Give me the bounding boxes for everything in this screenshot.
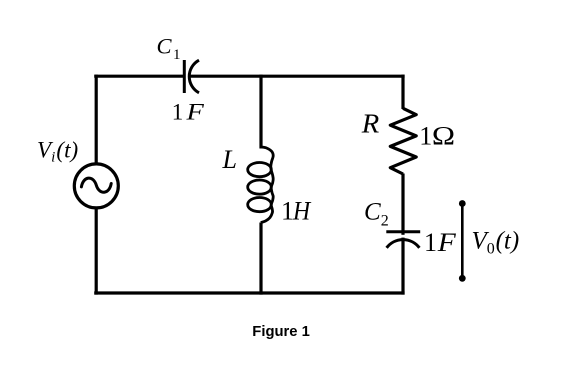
- wire: middle vertical, lower (inductor to bottom wire): [259, 223, 262, 295]
- wire: middle vertical, upper (top wire to inductor): [259, 75, 262, 149]
- wire: bottom horizontal: [94, 291, 404, 294]
- svg-text:Ω: Ω: [432, 120, 455, 150]
- svg-text:F: F: [437, 228, 457, 257]
- voltage source Vi (circle with sine): [74, 164, 118, 208]
- capacitor C2 (straight plate + curved plate): [386, 232, 420, 248]
- wire: right vertical, lower (C2 to bottom wire): [401, 238, 404, 295]
- label Vi(t): [37, 137, 78, 165]
- value 1 ohm: [419, 120, 455, 150]
- label R: [361, 108, 380, 139]
- label C1: [157, 34, 181, 64]
- wire: top horizontal, right segment: [189, 75, 404, 78]
- svg-text:R: R: [361, 108, 380, 139]
- label L: [222, 145, 237, 174]
- wire: left vertical, lower (source to bottom wire): [95, 208, 98, 295]
- wire: top horizontal, left segment: [94, 75, 183, 78]
- svg-text:C2: C2: [364, 199, 389, 230]
- resistor R (zigzag): [390, 108, 416, 174]
- svg-text:1: 1: [172, 99, 184, 124]
- svg-text:V0(t): V0(t): [472, 227, 520, 257]
- wire: right vertical, upper (top wire to resistor): [401, 75, 404, 109]
- capacitor C1 (straight plate + curved plate): [184, 60, 199, 93]
- label V0(t): [472, 227, 520, 257]
- inductor L (3-loop coil): [248, 147, 274, 223]
- svg-text:Vi(t): Vi(t): [37, 137, 78, 165]
- output terminals V0 (line with end dots): [459, 200, 466, 282]
- caption Figure 1: [252, 324, 310, 340]
- wire: left vertical, upper (top wire to source): [95, 75, 98, 165]
- svg-text:L: L: [222, 145, 237, 174]
- label C2: [364, 199, 389, 230]
- svg-text:1: 1: [424, 228, 437, 257]
- svg-text:C1: C1: [157, 34, 181, 64]
- svg-text:H: H: [292, 196, 311, 225]
- svg-text:F: F: [185, 99, 205, 124]
- svg-text:Figure 1: Figure 1: [252, 324, 310, 340]
- svg-text:1: 1: [419, 121, 432, 150]
- wire: right vertical, middle (resistor to C2): [401, 174, 404, 235]
- value 1H: [281, 196, 311, 225]
- value 1F (C1): [172, 99, 205, 124]
- value 1F (C2): [424, 228, 457, 257]
